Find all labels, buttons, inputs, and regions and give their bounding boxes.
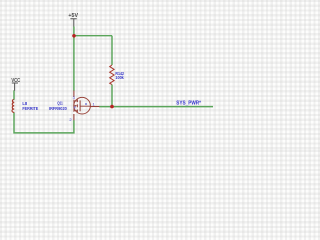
power port VCC xyxy=(11,78,20,91)
svg-text:2: 2 xyxy=(69,117,72,122)
pin name D xyxy=(74,106,76,108)
transistor Q2 / mosfet Q11 xyxy=(49,91,99,122)
wire R142 bottom to gate net xyxy=(111,85,113,107)
pin 1 gate stub xyxy=(90,106,99,108)
power port +5V xyxy=(68,13,78,27)
inductor L8 ferrite bead xyxy=(12,99,38,112)
source/drain vertical bar xyxy=(73,100,75,112)
gate bar xyxy=(79,100,81,111)
body circle xyxy=(74,97,91,114)
wire Q11 gate to SYS_PWR* xyxy=(99,106,213,108)
wire +5V stem down to junction xyxy=(73,27,75,36)
svg-text:1: 1 xyxy=(93,101,96,106)
svg-text:IRFR9020: IRFR9020 xyxy=(49,106,67,111)
pin 3 source stub xyxy=(73,91,75,98)
pin name G xyxy=(85,103,87,105)
junction dot at +5V rail xyxy=(72,34,76,38)
wire R142 top xyxy=(111,36,113,65)
pin 2 drain stub xyxy=(73,114,75,121)
wire +5V rail horizontal to R142 column xyxy=(74,35,112,37)
channel segments xyxy=(76,99,78,112)
channel stubs xyxy=(74,101,77,111)
body arrow xyxy=(75,105,77,107)
wire VCC to L8 xyxy=(13,90,15,99)
svg-text:FERRITE: FERRITE xyxy=(22,106,38,111)
resistor R142 xyxy=(110,65,125,85)
wire Q11 drain around bottom to L8 xyxy=(14,112,74,132)
svg-text:3: 3 xyxy=(73,95,76,100)
junction dot on gate net xyxy=(110,105,114,109)
wire +5V down to Q11 source pin xyxy=(73,36,75,91)
svg-text:SYS_PWR*: SYS_PWR* xyxy=(176,100,201,106)
gate line inside body xyxy=(80,105,90,107)
svg-text:100k: 100k xyxy=(115,75,124,80)
